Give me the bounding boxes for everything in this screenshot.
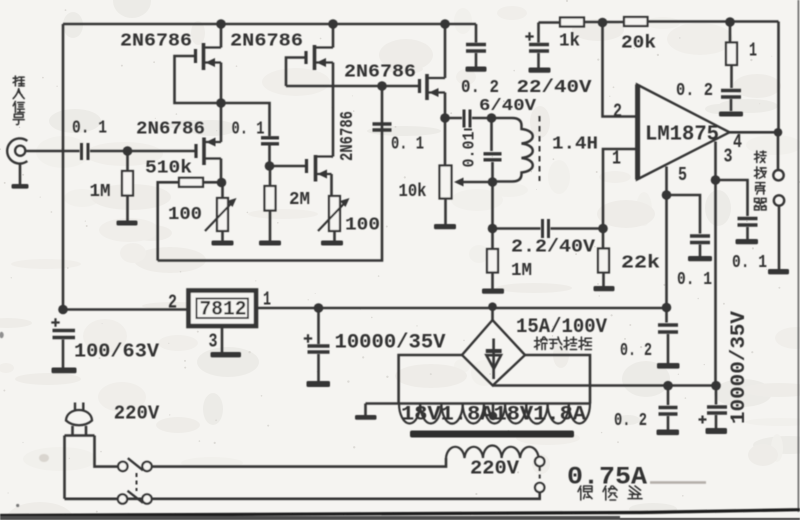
transistor Q4 2N6786 input stage [196,138,221,166]
svg-text:1k: 1k [559,32,580,52]
node: C7 / R5 node [488,224,498,234]
wire: feedback right rail [777,22,780,133]
rectifier BR1 bridge 15A/100V [462,307,525,386]
svg-text:0. 1: 0. 1 [72,119,107,139]
svg-text:100: 100 [168,205,202,225]
wire: to Q5 gate [270,165,307,168]
label: input signal (Chinese 输入信号) [13,76,24,125]
resistor R1 1M [126,151,129,171]
node: zobel top node [725,17,735,27]
ground: C17 [706,428,728,434]
wire: pin2 line [603,23,638,117]
svg-text:7812: 7812 [200,299,247,322]
capacitor C8 22/40V [525,23,549,68]
label: connect speaker (Chinese 接扬声器) [755,151,767,210]
ground: R1 [117,221,138,226]
svg-text:0. 1: 0. 1 [391,135,424,155]
border: right page edge line [797,0,799,512]
wire: pin3 V- lead [714,142,717,386]
svg-text:10000/35V: 10000/35V [728,311,751,424]
wire: Q3 drain up [444,24,447,78]
wire: switch S1b left [65,497,118,500]
svg-text:0. 1: 0. 1 [732,253,767,273]
ground: 7812 [211,352,242,357]
svg-text:2N6786: 2N6786 [136,120,205,140]
ground: RP2 [321,241,343,246]
wire: Q1 gate loop [175,56,220,103]
transistor Q5 2N6786 second stage [307,155,332,182]
op-amp U1 LM1875 [637,85,730,180]
wire: output to speaker terminal [777,132,780,170]
resistor R8 20k feedback [624,17,648,26]
capacitor C13 100/63V [51,318,75,367]
transistor Q3 2N6786 top-right [420,74,446,100]
node: coil input node [487,113,497,123]
node: pin5 bypass tap [662,190,672,200]
capacitor C10 0.2 zobel [721,91,741,112]
smudge left edge [39,454,49,462]
inductor L1 1.4H [492,118,533,182]
node: gate bus tap [377,81,387,91]
capacitor C15 0.2 [658,308,678,364]
node: coil output node [488,177,498,187]
regulator U2 7812 [189,291,257,327]
wire: V- line from bridge [493,384,720,387]
svg-text:100: 100 [345,216,380,236]
smudge faint line [650,481,706,484]
node: bridge + output [488,302,497,311]
wire: RP3 wiper arm [462,181,493,184]
wire: Q5 drain to Q2 [332,155,334,158]
transformer T1 secondary top line [366,402,591,405]
link: ganged switch dashes [136,473,138,491]
node: V+ rail end [662,303,672,313]
svg-text:10000/35V: 10000/35V [335,332,446,355]
wire: output pin4 [730,131,779,134]
svg-text:1M: 1M [511,261,532,281]
svg-text:2N6786: 2N6786 [344,63,416,83]
svg-text:3: 3 [724,146,733,168]
wire: speaker - to ground [778,206,781,269]
svg-text:100/63V: 100/63V [74,341,160,363]
node: V- cap tap 2 [711,381,721,391]
capacitor C12 0.1 bypass [716,180,748,216]
switch S1a [118,458,152,471]
svg-text:2N6786: 2N6786 [230,32,303,52]
node: input bias node [123,146,133,156]
capacitor C4 0.1 feedback [373,124,392,130]
label: fuse (Chinese 保险丝) [578,486,642,500]
ground: R6 [594,286,615,291]
wire: plug right leg [95,436,119,467]
wire: bridge AC right [525,355,590,404]
ground: C11 [688,256,712,261]
svg-text:2.2/40V: 2.2/40V [511,238,595,258]
label: bridge rectifier (Chinese 桥式硅堆) [535,337,592,350]
node: pin2 node [598,18,608,28]
ground: speaker return [768,269,789,274]
svg-text:22/40V: 22/40V [517,78,592,98]
wire: rail to 7812 [63,308,189,311]
ground: C14 [307,381,331,387]
plug P1 220V mains [65,403,95,436]
wire: to gate of Q4 [90,150,195,153]
svg-text:1.4H: 1.4H [552,135,598,155]
ground: C8 [529,68,551,73]
switch S1b [118,491,152,504]
svg-text:1: 1 [612,148,621,170]
wire: input line [25,150,79,153]
capacitor C7 2.2/40V [493,227,541,230]
capacitor C17 10000/35V [699,386,728,428]
node: V+ left bus joint [58,305,68,315]
svg-text:2: 2 [168,292,177,314]
capacitor C2 0.1 interstage [261,138,279,144]
svg-text:3: 3 [209,331,218,353]
svg-text:5: 5 [678,164,687,186]
ground: C16 [657,430,680,436]
potentiometer RP2 100 [318,196,350,231]
transistor Q1 2N6786 top-left [196,43,222,70]
svg-text:1: 1 [749,40,757,62]
svg-text:0. 1: 0. 1 [677,270,712,290]
svg-text:2N6786: 2N6786 [120,32,192,52]
svg-text:0.75A: 0.75A [567,463,647,492]
potentiometer RP1 100 [205,198,237,231]
node: Q1-Q4 junction [216,98,226,108]
terminal: speaker - [774,195,784,205]
svg-text:0. 2: 0. 2 [676,81,713,101]
wire: gate bus Q2/Q3 [286,85,420,88]
svg-text:2M: 2M [289,190,310,210]
svg-text:22k: 22k [621,254,660,274]
resistor R6 22k [602,229,605,249]
transistor Q2 2N6786 top-middle [306,45,333,70]
svg-text:0. 2: 0. 2 [461,78,499,98]
svg-text:0.01: 0.01 [460,131,479,167]
ground: RP1 [212,241,234,246]
svg-text:6/40V: 6/40V [479,97,537,116]
node: Q4 source / R2 / RP1 [217,178,227,188]
ground: C9 [466,67,487,72]
node: Q5 gate node [265,161,275,171]
svg-text:220V: 220V [470,458,520,480]
svg-text:510k: 510k [145,159,192,179]
wire: Q2 source down to Q5 drain [332,63,335,157]
wire: fuse to bottom line [65,492,540,499]
wire: plug left leg [63,436,66,499]
node: T1 drain on rail [216,19,226,29]
resistor R7 1k [539,21,561,24]
capacitor C9 0.2 supply [475,24,478,43]
svg-text:2N6786: 2N6786 [338,111,358,161]
wire: Q3 source down [444,93,447,119]
ground: C12 [736,239,759,244]
wire: feedback line to C4 [158,122,382,261]
connector J1 input RCA jack [7,138,27,184]
capacitor C16 0.2 [659,386,678,430]
svg-text:18V1.8A18V1.8A: 18V1.8A18V1.8A [401,404,586,427]
wire: 7812 pin3 to ground [221,326,224,352]
node: C14 tap [314,303,324,313]
capacitor C1 0.1 input coupling [82,143,89,160]
winding: primary 220V coil [446,446,539,459]
wire: bridge AC left [399,355,462,404]
capacitor C5 6/40V coupling [445,117,462,120]
svg-text:20k: 20k [621,34,656,54]
svg-text:0. 2: 0. 2 [614,411,647,431]
wire: Q1 source down [220,63,223,104]
ground: RP3 [434,224,456,229]
node: feedback node pin1 [598,224,608,234]
node: center tap [489,412,497,420]
wire: Q2 gate loop [286,58,306,87]
resistor R9 1 [729,22,732,43]
svg-text:220V: 220V [114,403,160,425]
wire: V+ top rail [63,23,476,26]
svg-text:1M: 1M [90,182,111,202]
wire: junction to C2 [221,103,270,136]
ground: R5 [482,289,504,294]
node: T2 drain on rail [328,19,338,29]
ground: R3 [259,241,281,246]
svg-text:0. 2: 0. 2 [620,341,652,361]
svg-text:10k: 10k [399,182,427,202]
core: transformer iron core bar [410,431,574,438]
node: T3 drain on rail [440,19,450,29]
wire: pin1 feedback [603,149,637,229]
capacitor C11 0.1 bypass [667,195,701,234]
ground: C10 [719,112,743,117]
svg-text:15A/100V: 15A/100V [516,316,607,339]
wire: pin5 V+ lead [665,167,668,308]
resistor R5 1M [491,229,494,250]
border: bottom black bar [0,510,800,516]
fuse F1 0.75A [535,457,544,492]
wire: V+ rail 7812 to bridge to pin5 [256,307,667,310]
ground: center tap [364,404,367,416]
wire: Q4 drain up [220,103,223,142]
ground: C13 [52,368,77,374]
svg-text:LM1875: LM1875 [645,124,719,147]
node: Q3 source output node [440,113,450,123]
core: dashed line of L1 [539,116,541,181]
ground: below input jack [12,184,29,189]
svg-text:0. 1: 0. 1 [232,120,265,140]
node: output [774,128,783,137]
wire: Q2 drain up [332,24,335,48]
capacitor C14 10000/35V [304,308,330,381]
ground: C15 [657,363,680,369]
wire: left vertical bus [62,24,65,310]
svg-text:4: 4 [733,131,742,153]
wire: Q5 source down [330,174,333,196]
terminal: speaker + [773,170,783,180]
winding: secondary 18V coils [399,404,590,424]
node: pin3 bypass tap [711,175,721,185]
resistor R3 2M [269,166,272,186]
node: V- cap tap [663,381,673,391]
wire: Q1 drain up [220,24,223,48]
wire: primary left lead [152,458,446,467]
svg-text:2: 2 [613,101,622,123]
capacitor C6 0.01 [490,118,493,151]
wire: Q4 source down [220,159,223,183]
